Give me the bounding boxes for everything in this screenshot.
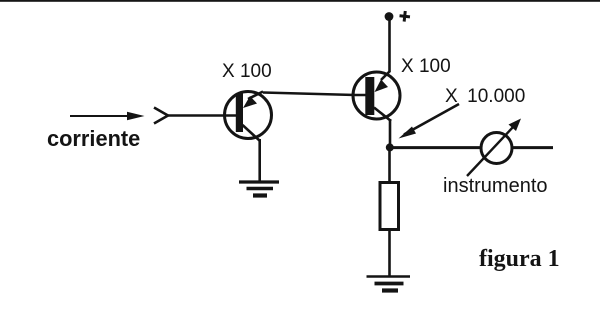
svg-text:instrumento: instrumento <box>443 175 548 197</box>
svg-text:corriente: corriente <box>47 126 140 151</box>
svg-text:X 100: X 100 <box>401 56 451 77</box>
svg-text:X 100: X 100 <box>222 61 272 82</box>
svg-text:figura 1: figura 1 <box>479 246 560 272</box>
